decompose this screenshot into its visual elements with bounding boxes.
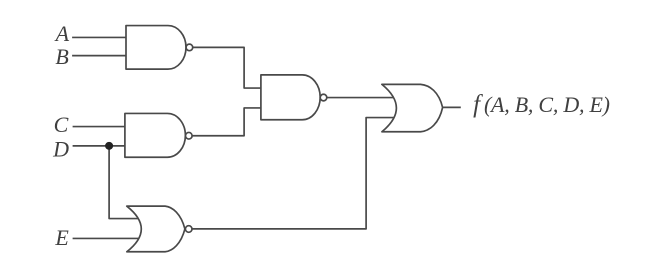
wire E input	[73, 237, 140, 239]
wire C input	[73, 126, 125, 128]
wire U3 output to U5	[192, 118, 395, 229]
nor gate U3 (inputs D,E)	[127, 206, 185, 252]
svg-text:D: D	[52, 136, 69, 161]
or gate U5 (output)	[382, 84, 443, 131]
wire f output	[443, 106, 461, 108]
svg-text:A: A	[54, 21, 70, 46]
svg-text:B: B	[55, 44, 68, 69]
svg-text:C: C	[54, 112, 69, 137]
wire U1 output to U4	[193, 47, 261, 88]
wire U4 output to U5	[327, 97, 395, 99]
wire B input	[72, 55, 126, 57]
bubble U2	[186, 132, 193, 139]
bubble U3	[185, 226, 192, 233]
bubble U4	[320, 94, 327, 101]
nand gate U2 (inputs C,D)	[125, 113, 185, 157]
wire U2 output to U4	[192, 108, 261, 136]
wire D branch to NOR	[109, 146, 139, 219]
junction dot on D	[105, 142, 113, 150]
nand gate U1 (inputs A,B)	[126, 26, 186, 70]
wire A input	[72, 36, 126, 38]
bubble U1	[186, 44, 193, 51]
nand gate U4 (second level)	[261, 75, 320, 120]
wire D input	[73, 145, 125, 147]
svg-text:f (A, B, C, D, E): f (A, B, C, D, E)	[473, 91, 610, 118]
svg-text:E: E	[54, 225, 69, 250]
